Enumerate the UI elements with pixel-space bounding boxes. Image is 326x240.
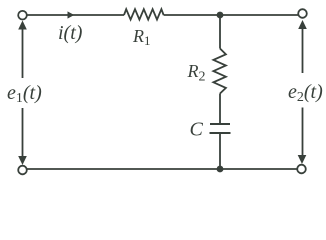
- wire left voltage marker lower shaft: [22, 108, 24, 158]
- terminal top-right: [298, 9, 307, 18]
- wire top-right horizontal: [164, 14, 298, 16]
- svg-text:R1: R1: [132, 26, 151, 48]
- junction dot top node: [217, 12, 224, 19]
- capacitor C bottom plate: [210, 132, 231, 134]
- junction dot bottom node: [217, 166, 224, 173]
- arrowhead left up (e1 top): [18, 21, 27, 30]
- arrowhead right down (e2 bottom): [298, 155, 307, 164]
- resistor R1 zigzag: [124, 9, 164, 19]
- wire right voltage marker lower shaft: [302, 108, 304, 158]
- wire branch between R2 and C: [219, 94, 221, 124]
- terminal top-left: [18, 11, 27, 20]
- arrowhead left down (e1 bottom): [18, 156, 27, 165]
- wire branch below C: [219, 134, 221, 169]
- wire right voltage marker upper shaft: [302, 26, 304, 73]
- arrowhead right up (e2 top): [298, 20, 307, 29]
- svg-text:R2: R2: [187, 61, 206, 85]
- svg-text:e2(t): e2(t): [288, 81, 323, 105]
- svg-text:C: C: [190, 119, 204, 141]
- current arrow i(t): [68, 11, 75, 18]
- resistor R2 zigzag: [213, 49, 226, 94]
- wire left voltage marker upper shaft: [22, 27, 24, 78]
- capacitor C top plate: [210, 123, 230, 125]
- svg-text:i(t): i(t): [58, 22, 83, 44]
- wire bottom horizontal: [27, 168, 297, 170]
- svg-text:e1(t): e1(t): [7, 82, 42, 106]
- wire top-left horizontal: [27, 14, 124, 16]
- terminal bottom-left: [18, 166, 27, 175]
- terminal bottom-right: [297, 165, 306, 174]
- wire branch vertical upper: [219, 15, 221, 49]
